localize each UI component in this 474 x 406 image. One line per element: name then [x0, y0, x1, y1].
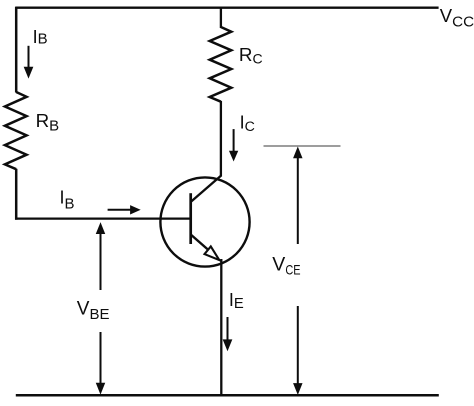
svg-text:VBE: VBE [77, 299, 110, 323]
transistor Q1: emitter arrowhead (open) [205, 246, 220, 260]
svg-text:IB: IB [60, 187, 75, 212]
wire: left branch upper (rail to RB) [15, 7, 18, 93]
reference line (collector level, gray) [264, 145, 341, 147]
svg-text:RB: RB [36, 110, 60, 135]
arrow VBE (double-headed vertical) [97, 224, 105, 394]
transistor Q1: emitter stroke [191, 235, 209, 251]
wire: base (horizontal to transistor) [15, 218, 191, 220]
wire: VCC top rail [15, 7, 438, 9]
arrow IE (downward) [223, 317, 231, 350]
resistor RB [5, 92, 27, 169]
svg-text:IC: IC [240, 112, 255, 135]
svg-text:IE: IE [229, 290, 244, 312]
transistor Q1: collector stroke [191, 176, 221, 202]
wire: collector branch (rail to RC) [220, 7, 222, 28]
arrow IB (top, downward) [24, 46, 32, 78]
transistor Q1: base bar [189, 193, 192, 244]
arrow IC (downward) [230, 129, 238, 160]
svg-text:VCE: VCE [272, 254, 300, 278]
wire: ground bottom rail [16, 394, 439, 397]
svg-text:RC: RC [239, 44, 263, 67]
resistor RC [210, 27, 232, 102]
svg-text:VCC: VCC [440, 5, 474, 31]
arrow IB (base, rightward) [108, 206, 140, 214]
wire: emitter to ground rail [220, 259, 222, 396]
transistor Q1: body circle [160, 177, 249, 266]
wire: RC to transistor collector [220, 101, 222, 177]
arrow VCE (double-headed vertical) [294, 148, 302, 394]
wire: left branch lower (RB to base corner) [15, 169, 18, 220]
svg-text:IB: IB [33, 27, 48, 48]
